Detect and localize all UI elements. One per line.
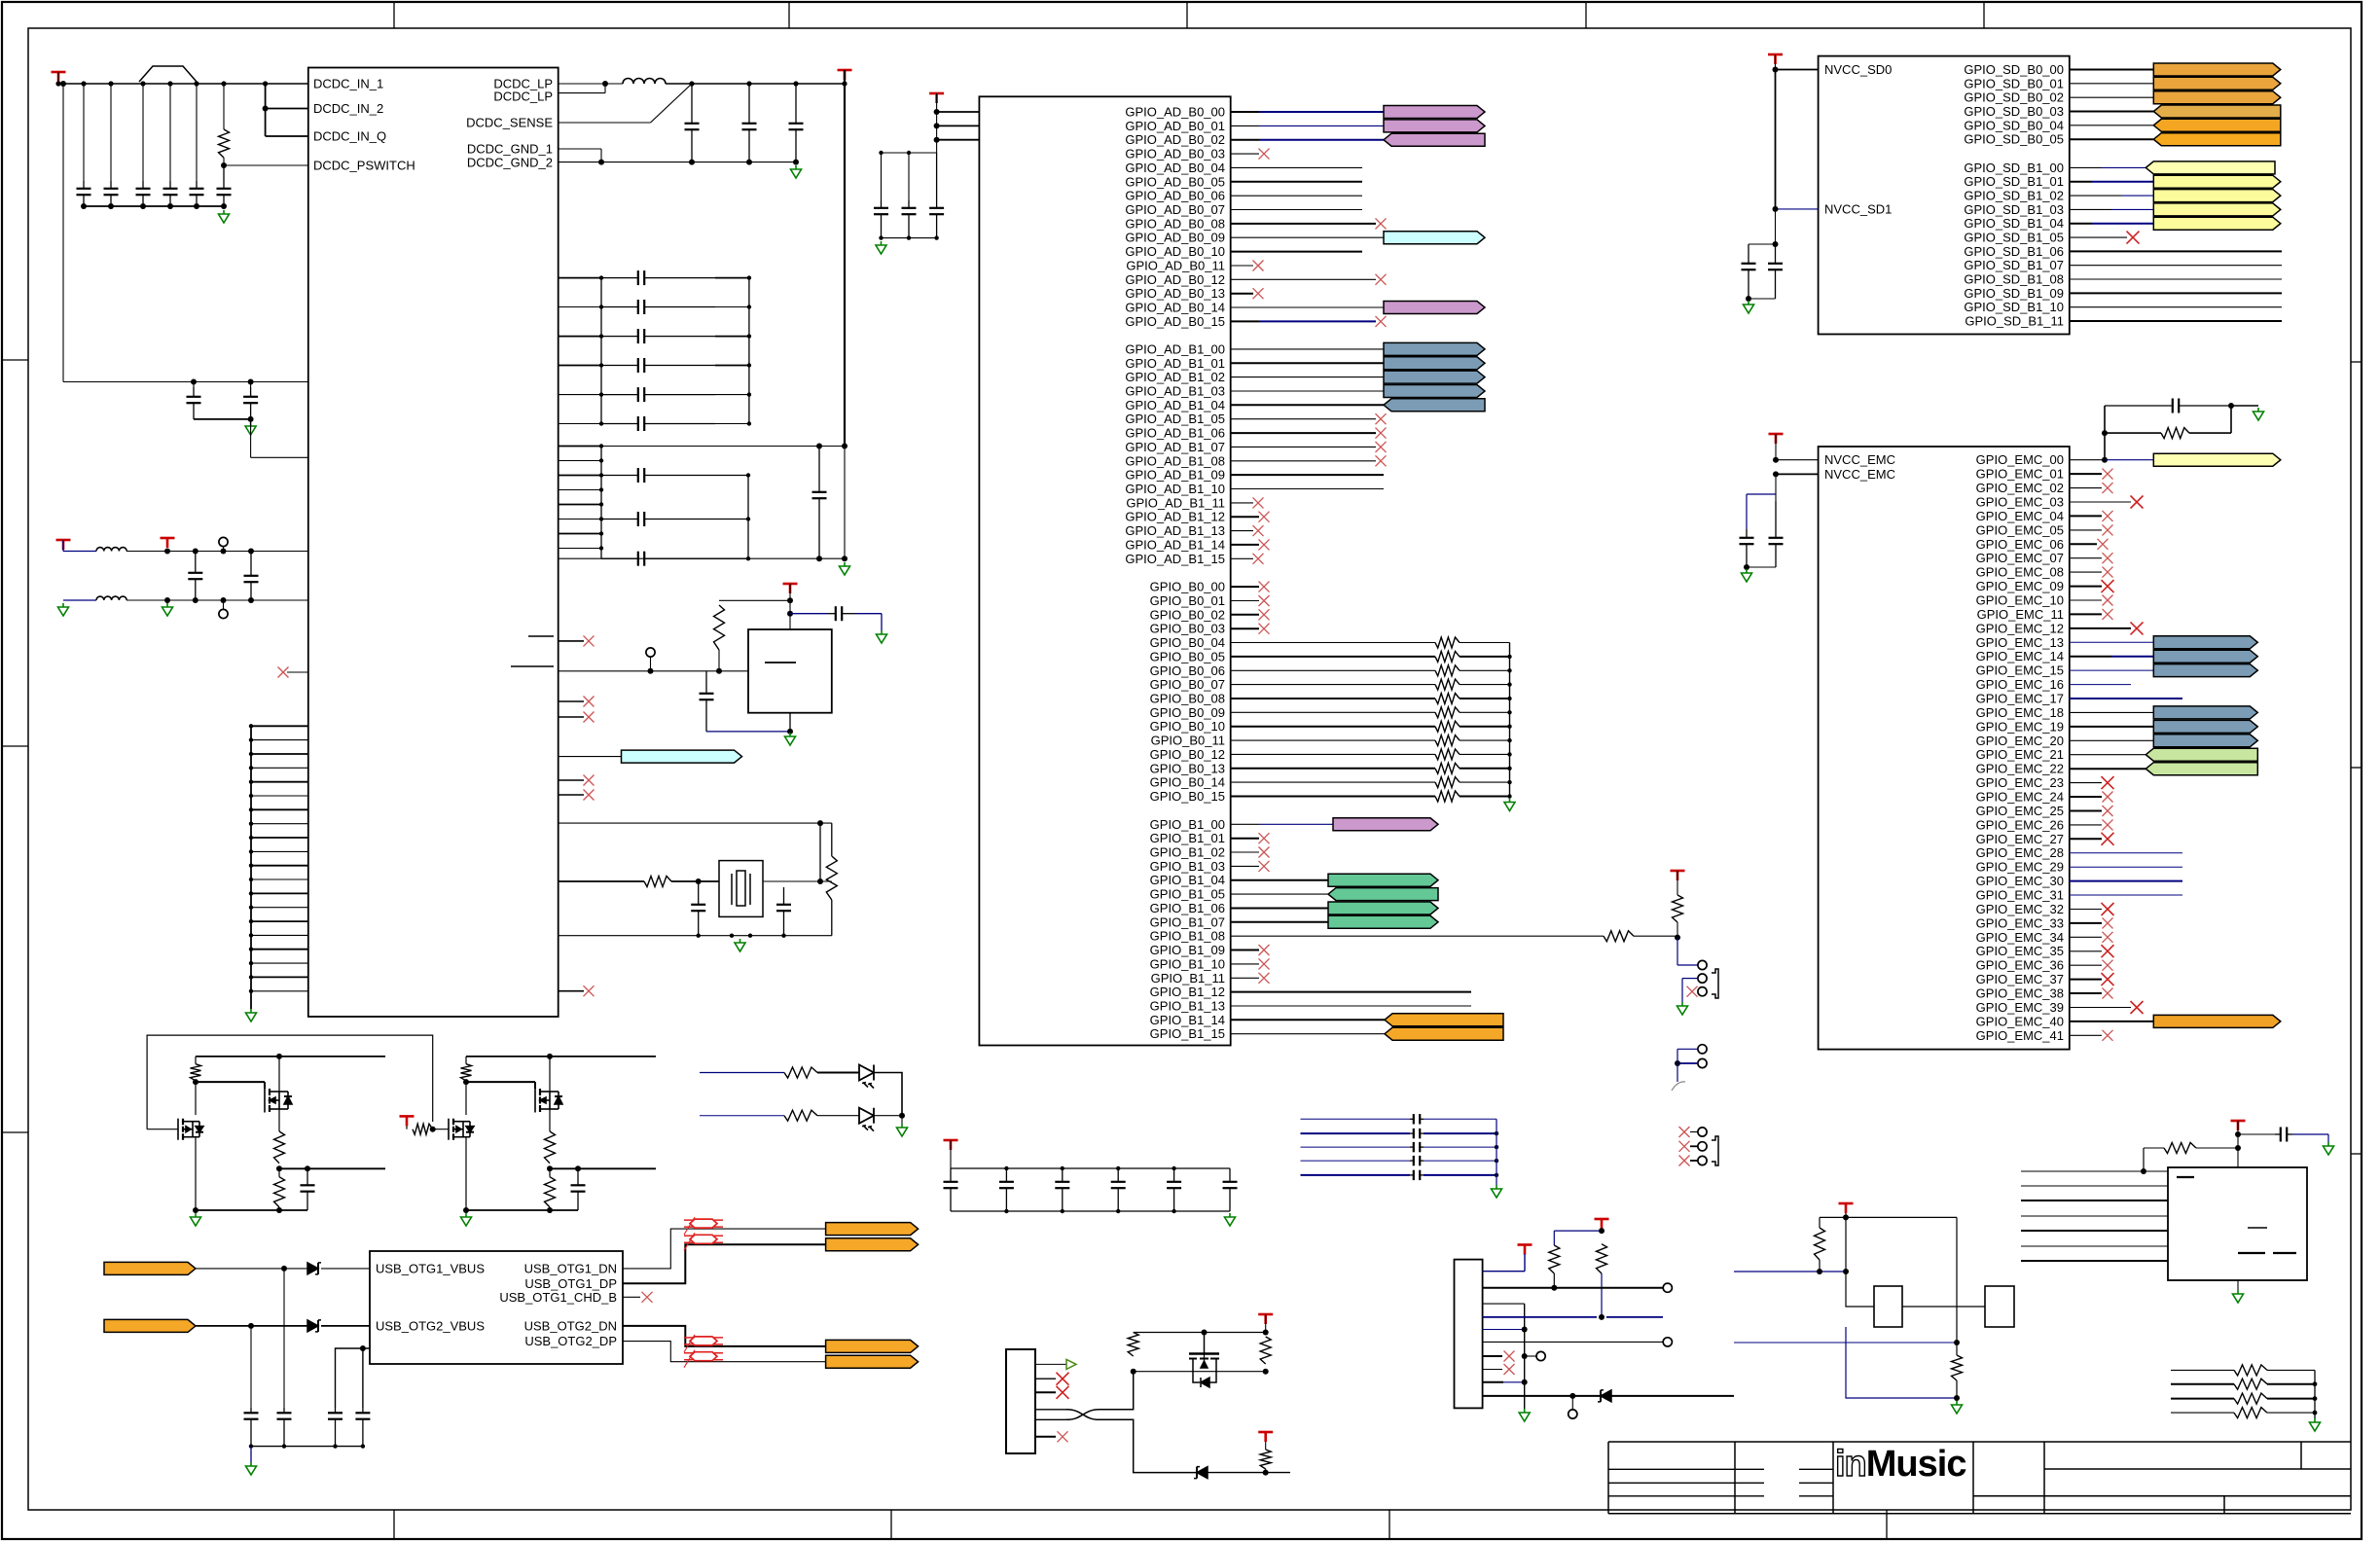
svg-text:GPIO_EMC_06: GPIO_EMC_06 xyxy=(1976,537,2064,552)
wire xyxy=(559,700,584,702)
capacitor xyxy=(1410,1114,1424,1124)
no-connect xyxy=(1259,595,1270,606)
wire xyxy=(251,850,308,852)
junction xyxy=(249,822,253,826)
wire xyxy=(2171,1383,2234,1385)
wire xyxy=(2070,487,2102,489)
wire xyxy=(600,149,602,162)
wire xyxy=(251,808,308,810)
wire xyxy=(1231,838,1259,840)
no-connect xyxy=(1253,554,1264,564)
wire xyxy=(1259,111,1384,113)
junction xyxy=(430,1127,436,1132)
wire xyxy=(1845,1213,1847,1272)
IC U4 SD GPIO bank xyxy=(1819,56,2070,335)
wire xyxy=(819,823,821,881)
junction xyxy=(1746,296,1751,302)
wire xyxy=(2070,641,2154,643)
wire xyxy=(251,781,308,783)
wire xyxy=(881,153,883,200)
wire xyxy=(1231,865,1259,867)
junction xyxy=(360,1345,366,1351)
junction xyxy=(1061,1166,1064,1170)
title block frame xyxy=(1608,1442,2351,1514)
capacitor C4 xyxy=(163,181,178,206)
wire xyxy=(406,1126,408,1129)
capacitor xyxy=(1410,1129,1424,1138)
svg-text:GPIO_EMC_02: GPIO_EMC_02 xyxy=(1976,481,2064,495)
svg-text:USB_OTG1_DP: USB_OTG1_DP xyxy=(524,1276,617,1291)
wire ladder bus xyxy=(600,278,602,424)
transistor xyxy=(449,1119,474,1140)
net flag USB1_DN xyxy=(826,1223,919,1236)
wire xyxy=(1231,181,1362,183)
wire xyxy=(2171,1398,2234,1400)
capacitor xyxy=(789,84,804,162)
wire xyxy=(1424,1132,1497,1134)
wire xyxy=(715,306,749,308)
wire xyxy=(1460,656,1510,658)
svg-text:GPIO_B1_03: GPIO_B1_03 xyxy=(1150,859,1225,874)
junction xyxy=(599,275,603,279)
wire xyxy=(623,1342,826,1362)
resistor xyxy=(1435,651,1460,662)
net flag xyxy=(1328,915,1438,928)
svg-text:GPIO_SD_B1_00: GPIO_SD_B1_00 xyxy=(1964,161,2064,175)
net flag xyxy=(1384,342,1485,355)
svg-text:GPIO_EMC_18: GPIO_EMC_18 xyxy=(1976,705,2064,720)
ground xyxy=(1742,569,1752,582)
wire xyxy=(1231,306,1384,308)
resistor xyxy=(2234,1393,2267,1404)
power flag xyxy=(400,1116,415,1126)
no-connect xyxy=(1253,261,1264,271)
svg-text:GPIO_B0_02: GPIO_B0_02 xyxy=(1150,607,1225,622)
wire xyxy=(1483,1303,1525,1305)
hidden pin dash xyxy=(528,635,554,637)
junction xyxy=(167,81,172,86)
wire xyxy=(559,670,748,672)
IC U2 regulator xyxy=(748,629,832,713)
wire xyxy=(1483,1341,1663,1343)
no-connect xyxy=(2103,483,2113,493)
net flag xyxy=(2153,636,2257,649)
svg-text:GPIO_SD_B0_04: GPIO_SD_B0_04 xyxy=(1964,118,2064,132)
common-mode choke xyxy=(684,1335,723,1352)
capacitor C8 xyxy=(243,387,258,419)
no-connect xyxy=(1253,497,1264,508)
resistor xyxy=(1952,1355,1963,1380)
junction xyxy=(249,849,253,853)
wire xyxy=(559,394,601,396)
junction xyxy=(1599,1228,1605,1234)
text dash xyxy=(2238,1252,2265,1254)
junction xyxy=(249,794,253,798)
power flag NVCC_EMC xyxy=(1769,434,1784,444)
junction xyxy=(907,151,911,155)
svg-text:GPIO_B0_11: GPIO_B0_11 xyxy=(1151,734,1225,748)
junction xyxy=(249,878,253,881)
wire xyxy=(283,1269,285,1408)
wire xyxy=(559,880,644,882)
wire xyxy=(1503,1381,1525,1383)
wire xyxy=(1775,474,1777,501)
wire xyxy=(1776,208,1819,210)
capacitor xyxy=(601,416,715,431)
svg-text:GPIO_SD_B1_02: GPIO_SD_B1_02 xyxy=(1964,189,2064,203)
net flag VBUS2 xyxy=(104,1319,196,1332)
svg-text:GPIO_B0_15: GPIO_B0_15 xyxy=(1150,789,1225,804)
wire xyxy=(1265,1469,1267,1473)
resistor R3 xyxy=(644,877,671,887)
wire xyxy=(623,1244,826,1283)
common-mode choke xyxy=(684,1233,723,1250)
svg-text:GPIO_EMC_23: GPIO_EMC_23 xyxy=(1976,775,2064,790)
wire xyxy=(874,1115,902,1117)
wire xyxy=(2070,181,2092,183)
wire xyxy=(559,365,601,367)
transistor xyxy=(535,1089,562,1113)
svg-text:GPIO_AD_B0_04: GPIO_AD_B0_04 xyxy=(1125,161,1225,175)
wire xyxy=(2070,529,2102,531)
power flag xyxy=(944,1140,958,1150)
terminal xyxy=(1698,1142,1707,1151)
svg-text:GPIO_AD_B0_10: GPIO_AD_B0_10 xyxy=(1125,244,1225,259)
wire xyxy=(251,753,308,755)
ground xyxy=(58,603,69,616)
wire xyxy=(2070,1021,2154,1022)
svg-text:DCDC_PSWITCH: DCDC_PSWITCH xyxy=(313,159,415,173)
wire xyxy=(2267,1383,2315,1385)
IC U7 xyxy=(2168,1167,2307,1280)
junction xyxy=(599,305,603,308)
junction xyxy=(249,864,253,868)
junction xyxy=(249,737,253,741)
wire xyxy=(2021,1230,2168,1232)
wire xyxy=(1601,1273,1603,1317)
wire xyxy=(1677,1048,1698,1050)
wire xyxy=(1677,1062,1698,1064)
capacitor C7 xyxy=(187,387,201,419)
svg-text:GPIO_SD_B0_03: GPIO_SD_B0_03 xyxy=(1964,104,2064,119)
wire xyxy=(362,1348,364,1408)
wire xyxy=(196,84,198,181)
junction xyxy=(193,597,198,603)
wire xyxy=(1776,459,1819,461)
wire xyxy=(1231,209,1362,211)
wire xyxy=(1460,642,1510,644)
svg-text:GPIO_B1_00: GPIO_B1_00 xyxy=(1150,817,1225,832)
junction xyxy=(599,531,603,535)
wire xyxy=(1677,871,1678,895)
wire xyxy=(1776,473,1819,475)
svg-text:GPIO_EMC_01: GPIO_EMC_01 xyxy=(1976,467,2064,482)
svg-text:GPIO_EMC_28: GPIO_EMC_28 xyxy=(1976,845,2064,860)
wire xyxy=(1681,979,1683,1002)
wire xyxy=(1231,879,1328,881)
junction xyxy=(1522,1327,1528,1333)
resistor xyxy=(2164,1143,2196,1154)
junction xyxy=(1954,1340,1960,1345)
power flag xyxy=(1671,871,1685,880)
wire xyxy=(1231,293,1253,295)
ground xyxy=(191,1213,201,1226)
wire xyxy=(250,419,252,457)
svg-text:GPIO_SD_B1_04: GPIO_SD_B1_04 xyxy=(1964,216,2064,231)
no-connect xyxy=(2103,511,2113,521)
svg-text:GPIO_EMC_21: GPIO_EMC_21 xyxy=(1976,747,2064,762)
wire xyxy=(2111,208,2153,210)
wire xyxy=(1231,153,1259,155)
svg-text:DCDC_GND_1: DCDC_GND_1 xyxy=(467,142,553,157)
junction xyxy=(1507,697,1511,700)
junction xyxy=(816,555,822,561)
net flag xyxy=(2153,77,2281,90)
wire xyxy=(194,418,251,420)
no-connect xyxy=(2102,945,2114,957)
svg-text:GPIO_EMC_41: GPIO_EMC_41 xyxy=(1976,1028,2064,1043)
wire xyxy=(1524,1254,1526,1272)
wire xyxy=(559,794,584,796)
svg-text:GPIO_B1_04: GPIO_B1_04 xyxy=(1150,873,1225,887)
wire xyxy=(1483,1271,1525,1272)
ground xyxy=(461,1213,472,1226)
capacitor xyxy=(944,1168,958,1211)
junction xyxy=(249,891,253,895)
capacitor xyxy=(1742,244,1756,299)
wire xyxy=(1231,726,1435,728)
junction xyxy=(221,162,227,168)
wire xyxy=(549,1168,551,1176)
wire xyxy=(937,139,980,141)
junction xyxy=(221,203,227,209)
wire xyxy=(1483,1355,1502,1357)
svg-text:GPIO_EMC_38: GPIO_EMC_38 xyxy=(1976,986,2064,1001)
wire xyxy=(1231,698,1435,699)
no-connect xyxy=(2103,567,2113,578)
connector J2 xyxy=(1006,1349,1035,1453)
svg-text:GPIO_B0_06: GPIO_B0_06 xyxy=(1150,663,1225,678)
wire xyxy=(1134,1332,1266,1334)
wire xyxy=(2021,1245,2168,1247)
wire xyxy=(789,713,791,732)
wire xyxy=(1231,362,1384,364)
junction xyxy=(599,502,603,506)
junction xyxy=(2102,430,2108,436)
wire xyxy=(1035,1378,1056,1380)
svg-text:GPIO_B1_02: GPIO_B1_02 xyxy=(1150,845,1225,860)
junction xyxy=(599,421,603,425)
wire xyxy=(1483,1369,1502,1371)
svg-text:GPIO_B0_14: GPIO_B0_14 xyxy=(1150,775,1225,790)
wire xyxy=(2070,278,2282,280)
connector J3 xyxy=(1455,1260,1483,1409)
junction xyxy=(599,458,603,462)
net flag xyxy=(2153,650,2257,663)
svg-text:GPIO_AD_B0_06: GPIO_AD_B0_06 xyxy=(1125,189,1225,203)
wire xyxy=(817,1072,859,1074)
svg-text:GPIO_EMC_17: GPIO_EMC_17 xyxy=(1976,692,2064,706)
junction xyxy=(1495,1173,1498,1177)
ground xyxy=(735,939,745,951)
IC U1 DCDC converter xyxy=(308,68,559,1018)
wire xyxy=(559,990,584,992)
wire xyxy=(1231,502,1253,504)
terminal xyxy=(646,648,655,657)
svg-text:GPIO_AD_B1_01: GPIO_AD_B1_01 xyxy=(1125,356,1225,371)
svg-text:GPIO_SD_B1_06: GPIO_SD_B1_06 xyxy=(1964,244,2064,259)
net flag xyxy=(1328,874,1438,886)
junction xyxy=(281,1266,287,1272)
junction xyxy=(1507,738,1511,742)
wire xyxy=(251,767,308,769)
capacitor C9 xyxy=(188,552,202,601)
capacitor xyxy=(874,200,888,238)
svg-text:GPIO_EMC_35: GPIO_EMC_35 xyxy=(1976,944,2064,958)
wire xyxy=(1231,823,1259,825)
wire xyxy=(251,934,308,936)
wire xyxy=(278,1168,280,1176)
svg-text:GPIO_SD_B0_00: GPIO_SD_B0_00 xyxy=(1964,62,2064,77)
net flag USB1_DP xyxy=(826,1238,919,1251)
border tick bottom xyxy=(890,1510,892,1539)
power flag xyxy=(1839,1203,1854,1213)
wire xyxy=(559,548,601,550)
svg-text:USB_OTG1_VBUS: USB_OTG1_VBUS xyxy=(376,1261,485,1275)
resistor xyxy=(1673,895,1683,922)
wire xyxy=(534,1082,536,1089)
wire xyxy=(251,739,308,741)
capacitor xyxy=(999,1168,1014,1211)
resistor xyxy=(1435,735,1460,746)
diode D6 xyxy=(1598,1390,1611,1402)
wire xyxy=(2144,1147,2164,1149)
wire xyxy=(465,1137,467,1210)
wire xyxy=(2070,586,2102,588)
no-connect xyxy=(1679,1156,1690,1166)
no-connect xyxy=(1253,525,1264,536)
wire xyxy=(1231,418,1376,420)
wire xyxy=(126,551,308,553)
no-connect xyxy=(584,635,595,646)
junction xyxy=(193,1207,198,1213)
junction xyxy=(602,81,608,87)
wire xyxy=(550,1167,656,1169)
wire xyxy=(937,125,980,126)
transistor xyxy=(178,1119,203,1140)
wire xyxy=(844,70,846,447)
wire xyxy=(2070,208,2111,210)
wire xyxy=(559,336,601,338)
wire xyxy=(251,823,308,825)
wire xyxy=(1231,753,1435,755)
wire xyxy=(763,880,832,882)
svg-text:GPIO_EMC_31: GPIO_EMC_31 xyxy=(1976,888,2064,903)
wire xyxy=(278,1057,280,1092)
junction xyxy=(108,203,114,209)
svg-text:NVCC_SD0: NVCC_SD0 xyxy=(1824,62,1892,77)
wire xyxy=(1231,460,1376,462)
no-connect xyxy=(1687,986,1698,997)
wire xyxy=(223,84,225,129)
inductor L1 xyxy=(623,79,666,85)
svg-text:GPIO_AD_B1_08: GPIO_AD_B1_08 xyxy=(1125,453,1225,468)
ground xyxy=(1952,1401,1963,1414)
svg-text:GPIO_EMC_16: GPIO_EMC_16 xyxy=(1976,677,2064,692)
junction xyxy=(934,235,938,239)
no-connect xyxy=(2131,622,2144,634)
wire xyxy=(1231,935,1604,937)
capacitor C1 xyxy=(77,181,91,206)
junction xyxy=(599,517,603,520)
wire xyxy=(266,135,308,137)
ground xyxy=(246,1462,257,1475)
wire xyxy=(2070,166,2102,168)
junction xyxy=(599,334,603,338)
wire loop xyxy=(147,1035,433,1129)
wire xyxy=(1460,768,1510,770)
resistor xyxy=(1435,637,1460,648)
junction xyxy=(249,975,253,979)
wire xyxy=(2070,992,2102,994)
border tick right xyxy=(2351,1153,2362,1155)
no-connect xyxy=(2103,960,2113,971)
junction xyxy=(879,235,883,239)
svg-text:GPIO_AD_B0_11: GPIO_AD_B0_11 xyxy=(1126,259,1225,273)
junction xyxy=(2102,457,2108,463)
svg-text:GPIO_AD_B0_13: GPIO_AD_B0_13 xyxy=(1125,286,1225,301)
junction xyxy=(1061,1209,1064,1213)
border tick right xyxy=(2351,361,2362,363)
net flag xyxy=(2153,190,2281,202)
wire sense diagonal xyxy=(651,84,693,123)
net flag xyxy=(2153,706,2257,719)
wire xyxy=(1231,488,1384,490)
border tick top xyxy=(1186,2,1188,28)
junction xyxy=(248,1323,254,1329)
junction xyxy=(747,305,751,308)
wire xyxy=(2070,69,2154,71)
wire xyxy=(2070,223,2092,225)
border tick top xyxy=(788,2,790,28)
junction xyxy=(1507,752,1511,756)
wire xyxy=(1231,1033,1385,1035)
no-connect xyxy=(1253,288,1264,299)
resistor xyxy=(784,1067,817,1078)
wire xyxy=(224,164,308,166)
wire xyxy=(110,84,112,181)
svg-text:GPIO_EMC_03: GPIO_EMC_03 xyxy=(1976,495,2064,510)
svg-text:GPIO_B0_05: GPIO_B0_05 xyxy=(1150,649,1225,663)
wire xyxy=(2189,432,2231,434)
resistor xyxy=(1260,1337,1271,1364)
net flag xyxy=(2153,91,2281,104)
junction xyxy=(575,1165,581,1171)
wire xyxy=(1460,698,1510,699)
capacitor xyxy=(685,84,700,162)
wire xyxy=(196,1268,307,1270)
wire xyxy=(62,84,64,382)
wire xyxy=(63,381,308,383)
wire xyxy=(1677,1049,1678,1082)
wire xyxy=(937,111,980,113)
junction xyxy=(1773,206,1779,212)
wire xyxy=(882,152,937,154)
wire xyxy=(83,84,85,181)
IC U5 EMC GPIO bank xyxy=(1819,447,2070,1050)
wire xyxy=(1035,1436,1056,1438)
wire xyxy=(559,935,832,937)
